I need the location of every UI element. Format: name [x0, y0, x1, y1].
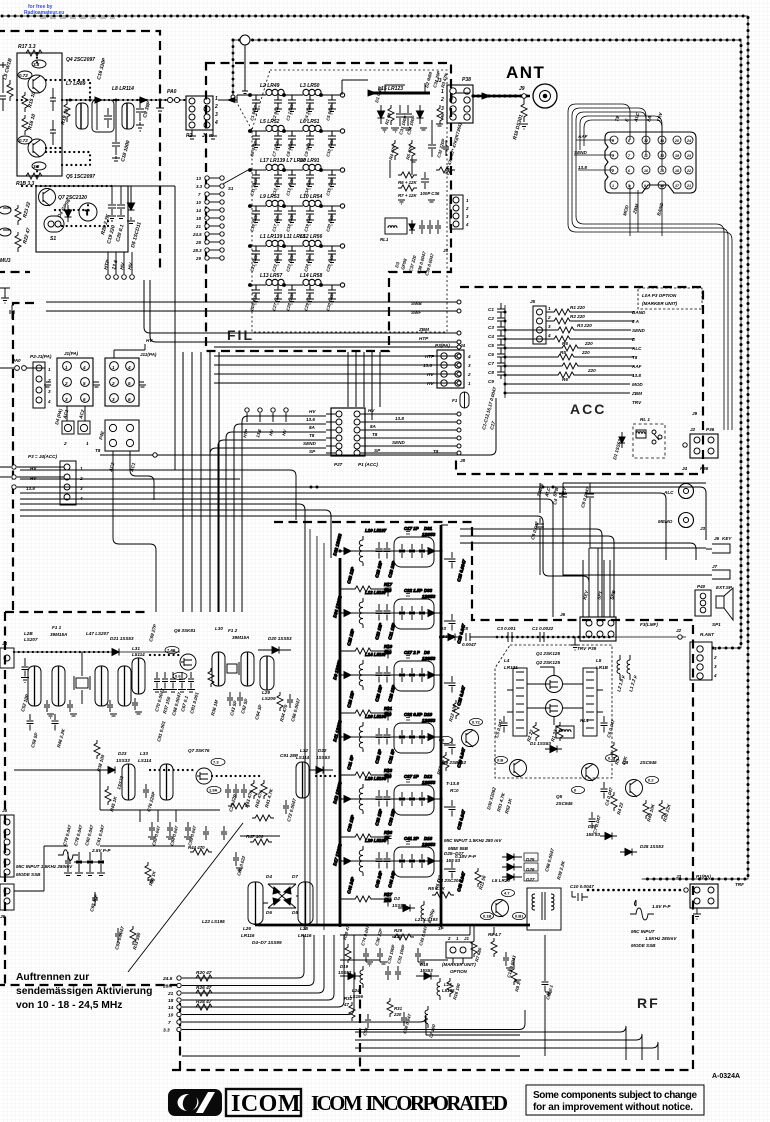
connector P41(PA): [105, 420, 139, 451]
svg-text:R3 220: R3 220: [577, 323, 592, 328]
svg-text:P27: P27: [334, 462, 343, 467]
wire: HTP: [150, 280, 457, 342]
wire HV top of J11: [114, 344, 145, 358]
svg-text:SP: SP: [309, 449, 316, 454]
svg-text:LS114: LS114: [138, 758, 152, 763]
svg-text:L12 L5197: L12 L5197: [365, 590, 387, 595]
beaded wire row2: [150, 770, 260, 776]
svg-text:R8 4.7: R8 4.7: [488, 932, 501, 937]
svg-text:7.4B: 7.4B: [167, 648, 176, 653]
switch S1 band contacts: [205, 176, 224, 260]
svg-text:2: 2: [214, 104, 218, 110]
svg-text:R23: R23: [384, 768, 393, 773]
resistor R33 390: [130, 926, 136, 945]
svg-text:TRV: TRV: [577, 646, 587, 651]
svg-text:A-0324A: A-0324A: [712, 1073, 740, 1080]
dashed box: RF unit main: [170, 522, 693, 1070]
svg-text:MIC INPUT 1.5KHz 280 mV: MIC INPUT 1.5KHz 280 mV: [444, 838, 502, 843]
svg-text:R32: R32: [344, 996, 353, 1001]
svg-text:Auftrennen zur: Auftrennen zur: [16, 972, 89, 983]
svg-text:SP1: SP1: [712, 622, 721, 627]
wires from grid left: [596, 140, 614, 170]
FET Q1 2SK125: [546, 676, 563, 693]
svg-text:J5: J5: [2, 808, 8, 813]
svg-text:D7: D7: [292, 874, 298, 879]
svg-text:von 10 - 18 - 24,5 MHz: von 10 - 18 - 24,5 MHz: [16, 1000, 122, 1011]
coil L7 100: [425, 1006, 428, 1028]
svg-text:13: 13: [660, 154, 664, 158]
wire: SWB: [46, 301, 457, 303]
svg-text:P3 = J4(ACC): P3 = J4(ACC): [28, 454, 57, 459]
svg-text:(MARKER UNIT): (MARKER UNIT): [642, 301, 678, 306]
svg-text:24.5: 24.5: [162, 976, 173, 982]
capacitor C18 1000: [112, 100, 120, 159]
svg-text:L2B: L2B: [24, 631, 33, 636]
svg-text:AAF: AAF: [631, 364, 642, 369]
coil L4 LR121: [513, 668, 527, 736]
wire: band 14: [182, 935, 344, 1007]
jack J7 EXT SP: [706, 570, 730, 579]
svg-text:2: 2: [440, 97, 444, 103]
svg-text:F3(LMF): F3(LMF): [640, 622, 658, 627]
svg-text:D10: D10: [424, 712, 433, 717]
IF stage 4: L16 L5196: [338, 718, 455, 783]
svg-text:11: 11: [644, 154, 648, 158]
svg-text:SEND: SEND: [303, 441, 316, 446]
resistors R6/R7 12K: [398, 172, 417, 191]
svg-text:J8: J8: [460, 458, 466, 463]
connector P3(PA)/J4: [437, 350, 464, 388]
svg-text:PA0: PA0: [167, 89, 177, 95]
svg-text:4: 4: [713, 673, 717, 678]
svg-text:D3: D3: [440, 626, 446, 631]
svg-text:1.9A: 1.9A: [209, 788, 218, 793]
row1 inter caps: [44, 698, 138, 712]
wire: main output line y=100 beaded: [62, 99, 186, 101]
capacitor C8 0.0047: [466, 633, 478, 641]
svg-text:BAND: BAND: [632, 310, 646, 315]
IF stage 3: L14 L5197: [338, 656, 455, 721]
diode D19: [348, 973, 355, 980]
cap C80: [233, 852, 239, 866]
wire: bus y=186: [62, 186, 175, 470]
svg-text:3: 3: [441, 106, 444, 112]
svg-text:C1 0.0022: C1 0.0022: [532, 626, 554, 631]
jack J4: [0, 648, 14, 668]
caps near jacks C8/C9: [559, 487, 594, 504]
svg-text:C3: C3: [488, 325, 494, 330]
svg-text:R2 220: R2 220: [570, 314, 585, 319]
svg-text:P2-J1(PA): P2-J1(PA): [30, 354, 52, 359]
svg-text:6: 6: [83, 397, 86, 402]
svg-text:3: 3: [548, 324, 551, 329]
extra texture modulator mid: [44, 698, 336, 882]
connector shell: [605, 132, 696, 193]
svg-text:T8: T8: [433, 449, 439, 454]
svg-text:sendemässigen Aktivierung: sendemässigen Aktivierung: [16, 986, 152, 997]
connector P39: [580, 617, 616, 641]
svg-text:3: 3: [112, 397, 115, 402]
svg-text:D21 1SS53: D21 1SS53: [110, 636, 134, 641]
svg-text:F1: F1: [452, 398, 458, 403]
svg-text:4: 4: [127, 365, 131, 370]
svg-text:1SS53: 1SS53: [422, 532, 436, 537]
wires from grid bottom: [630, 185, 662, 236]
resistor R15 10 vertical: [22, 92, 28, 112]
connector P3-J4(ACC): [60, 461, 76, 505]
svg-text:P36: P36: [700, 466, 709, 471]
svg-text:1.5KHz 280mV: 1.5KHz 280mV: [645, 936, 677, 941]
svg-text:L26: L26: [243, 926, 251, 931]
cap C36 100P: [421, 172, 429, 189]
svg-text:12: 12: [644, 139, 648, 143]
svg-text:1: 1: [112, 365, 115, 370]
svg-text:28: 28: [195, 240, 201, 245]
resistor R11 56: [475, 868, 481, 887]
cap C32 22P: [377, 948, 383, 962]
svg-text:L21 LS193: L21 LS193: [415, 917, 438, 922]
resistors R4/R5 47K: [392, 140, 415, 160]
svg-text:220: 220: [393, 934, 402, 939]
svg-text:J3: J3: [700, 526, 706, 531]
capacitor row C1-C9: [504, 305, 506, 398]
svg-text:L5 LR52: L5 LR52: [260, 119, 280, 125]
svg-text:1: 1: [468, 381, 471, 386]
svg-text:HV: HV: [30, 476, 37, 481]
connector J5: [0, 815, 14, 877]
capacitor C15 220P: [50, 120, 56, 145]
tank L31: [132, 658, 145, 694]
svg-text:R19: R19: [384, 644, 393, 649]
svg-text:21: 21: [195, 224, 201, 229]
svg-text:13: 13: [196, 176, 201, 181]
relay RL1 coil: [556, 726, 574, 738]
svg-text:1SS53: 1SS53: [392, 903, 406, 908]
svg-text:ACC: ACC: [570, 401, 606, 417]
caps between: [227, 692, 243, 706]
svg-text:3.3: 3.3: [163, 1028, 170, 1034]
ground stubs J1(PA): [44, 382, 100, 387]
svg-text:D18: D18: [420, 962, 429, 967]
svg-text:TRF: TRF: [735, 882, 744, 887]
wire: top row from bus to mixer: [441, 525, 497, 637]
svg-text:C27 2 P: C27 2 P: [404, 650, 420, 655]
pads P4(PA) AC1 AC2: [62, 421, 74, 434]
svg-text:MODE SSB: MODE SSB: [16, 872, 41, 877]
jack MEMO: [679, 513, 694, 528]
svg-text:Q7 2SC2120: Q7 2SC2120: [58, 195, 87, 201]
svg-text:D26: D26: [526, 867, 535, 872]
IF stage 1: L10 L5197: [338, 532, 455, 597]
coil L5 LR1B: [583, 668, 597, 736]
resistor R12 100: [453, 700, 459, 719]
svg-text:T8: T8: [95, 448, 101, 453]
svg-text:J4: J4: [2, 641, 8, 646]
svg-text:47: 47: [343, 1002, 349, 1007]
wire: T8: [100, 398, 496, 455]
diode D21: [112, 649, 119, 656]
svg-text:R17: R17: [384, 582, 393, 587]
svg-text:3: 3: [215, 112, 218, 118]
svg-text:D16: D16: [424, 836, 433, 841]
svg-text:P40: P40: [697, 584, 706, 589]
IF stage 2: L12 L5197: [338, 594, 455, 659]
svg-text:18: 18: [168, 998, 174, 1004]
svg-text:D25~D27: D25~D27: [444, 851, 464, 856]
dotted inner filter outline: [252, 70, 447, 332]
svg-text:8 A: 8 A: [632, 319, 639, 324]
inductor tank L7 LR89: [76, 103, 88, 129]
svg-text:ZBM: ZBM: [631, 391, 642, 396]
svg-text:HV: HV: [309, 409, 316, 414]
wire: band 18: [182, 935, 334, 1000]
svg-text:C8: C8: [488, 370, 494, 375]
svg-text:28.3: 28.3: [192, 248, 202, 253]
jack ALC: [679, 484, 694, 499]
switch S1 dual contact: [44, 216, 64, 232]
svg-text:D1 1SS53: D1 1SS53: [530, 741, 551, 746]
svg-text:D31: D31: [424, 526, 433, 531]
svg-text:ICOM: ICOM: [231, 1091, 301, 1117]
svg-text:4: 4: [440, 114, 444, 120]
svg-text:D22: D22: [318, 748, 327, 753]
connector P1(PA)/J3: [690, 884, 718, 908]
svg-text:39M15A: 39M15A: [50, 632, 67, 637]
resistor R1 68: [388, 105, 394, 125]
svg-text:14: 14: [660, 139, 664, 143]
svg-text:R29: R29: [394, 928, 403, 933]
fuse F1: [460, 392, 469, 408]
svg-text:D4~D7 1SS99: D4~D7 1SS99: [252, 940, 282, 945]
resistor R18 3.3: [22, 173, 46, 179]
svg-text:Q2 2SK125: Q2 2SK125: [536, 660, 560, 665]
svg-text:4: 4: [82, 365, 86, 370]
svg-text:F1 1: F1 1: [52, 625, 62, 630]
jack J6 KEY: [706, 544, 730, 553]
svg-text:RL1: RL1: [380, 237, 389, 242]
resistor R40 150: [228, 803, 250, 809]
svg-text:ANT: ANT: [506, 63, 545, 82]
svg-text:L5 LR20: L5 LR20: [492, 878, 510, 883]
svg-text:2: 2: [79, 476, 83, 481]
resistor R50: [145, 862, 151, 881]
svg-text:0.B1: 0.B1: [515, 914, 524, 919]
pad J2: [678, 635, 682, 639]
dashed box: FIL unit: [206, 63, 451, 351]
cap C55 0.0047: [115, 928, 121, 942]
transistor Q3 2SC945 extra: [462, 730, 479, 747]
note: components subject to change box: [526, 1085, 704, 1115]
resistor R3 10K: [611, 742, 617, 761]
thick wire L15 LR123: [368, 92, 430, 95]
svg-text:1: 1: [86, 441, 89, 446]
dashed box: modulator bottom-left unit: [0, 612, 360, 1070]
ground under C9: [136, 125, 144, 131]
svg-text:8A: 8A: [370, 424, 376, 429]
connector P2/J1: [186, 96, 213, 130]
svg-text:2: 2: [64, 381, 68, 386]
svg-text:1: 1: [48, 367, 51, 372]
svg-text:C3 0.001: C3 0.001: [497, 626, 516, 631]
pad: inner beaded line trimmer circle: [231, 35, 250, 99]
connector J5: [533, 306, 546, 344]
svg-text:0.72: 0.72: [19, 138, 28, 143]
svg-text:4: 4: [465, 222, 469, 227]
connector P40 + speaker SP1: [695, 590, 711, 616]
svg-text:J3: J3: [676, 874, 682, 879]
svg-text:for an improvement without not: for an improvement without notice.: [533, 1102, 693, 1113]
svg-text:L5114: L5114: [132, 652, 145, 657]
svg-text:1: 1: [65, 365, 68, 370]
svg-text:AAF: AAF: [577, 134, 588, 139]
grounds right cluster: [381, 128, 427, 132]
svg-text:0.1B: 0.1B: [483, 914, 492, 919]
resistor R45 1K: [105, 786, 111, 805]
caps C33/C34 100P: [396, 105, 412, 126]
beaded segment row2 right: [316, 775, 336, 777]
svg-text:J6: J6: [560, 612, 566, 617]
cap C12 0.0033: [503, 952, 509, 966]
connector J2/P36: [690, 434, 718, 458]
svg-text:4: 4: [467, 354, 471, 359]
svg-text:1: 1: [441, 89, 444, 95]
resistor R23 22: [15, 205, 21, 225]
resistors R43/R42: [251, 780, 267, 799]
svg-text:T-13.8: T-13.8: [446, 781, 459, 786]
svg-text:T8: T8: [372, 432, 378, 437]
svg-text:FIL: FIL: [227, 327, 254, 343]
tank circuit with cap: [92, 100, 114, 132]
wire: band 28M: [182, 935, 314, 986]
svg-text:2.5V P-P: 2.5V P-P: [91, 848, 111, 853]
svg-text:220: 220: [584, 341, 593, 346]
svg-text:T8: T8: [632, 355, 638, 360]
svg-text:1SS53: 1SS53: [422, 656, 436, 661]
capacitor C3 0.001: [508, 632, 512, 642]
svg-text:C9: C9: [488, 379, 494, 384]
grounds marker: [366, 962, 552, 996]
svg-text:1SS53: 1SS53: [316, 755, 330, 760]
svg-text:C37 1P: C37 1P: [404, 774, 419, 779]
svg-text:LR121: LR121: [504, 665, 518, 670]
thick bus left: [339, 558, 342, 925]
wire: long verticals through strip: [310, 529, 324, 930]
svg-text:ALC: ALC: [631, 346, 642, 351]
pin numbers: [611, 139, 691, 188]
svg-text:6: 6: [128, 397, 131, 402]
pin circles grid: [610, 136, 693, 189]
caps C56/C60: [365, 1012, 407, 1028]
svg-text:155.53: 155.53: [440, 634, 454, 639]
grounds: [148, 868, 243, 882]
cap C66: [287, 694, 293, 708]
svg-text:L5: L5: [596, 658, 602, 663]
transistor Q9 2SB562: [510, 760, 527, 777]
svg-text:C32 0.5P: C32 0.5P: [404, 712, 422, 717]
svg-text:13.8: 13.8: [395, 416, 404, 421]
svg-text:ZBM: ZBM: [418, 327, 429, 332]
capacitor C10 0.0047: [572, 891, 588, 901]
svg-text:SEND: SEND: [392, 440, 405, 445]
svg-text:2: 2: [467, 372, 471, 377]
svg-text:4: 4: [47, 399, 51, 404]
transistor Q4 2SC2083: [492, 900, 509, 917]
motor M: [79, 203, 97, 221]
HTP/13.6/HV/HV drop pads mid: [245, 408, 288, 422]
wires mixer: [527, 667, 583, 725]
svg-text:L16 L5196: L16 L5196: [365, 714, 387, 719]
svg-text:T8: T8: [309, 433, 315, 438]
svg-text:2: 2: [63, 441, 67, 446]
transistor Q5 2SC2097: [28, 139, 46, 157]
svg-text:1: 1: [215, 96, 218, 102]
ground stubs under connector: [156, 100, 217, 139]
relay RL1: [385, 218, 407, 234]
svg-text:RL 1: RL 1: [640, 417, 650, 422]
caps row1 left: [27, 714, 59, 731]
svg-text:4.7: 4.7: [504, 891, 510, 896]
svg-text:8A: 8A: [309, 425, 315, 430]
svg-text:LR116: LR116: [298, 933, 312, 938]
resistor R19 10 vertical: [64, 100, 70, 122]
svg-text:3: 3: [468, 363, 471, 368]
svg-text:9: 9: [644, 184, 646, 188]
pads PA0: [168, 98, 173, 103]
dashed box: PA top-left unit: [0, 31, 160, 272]
wire: row outputs to right: [342, 80, 368, 95]
svg-text:SP: SP: [374, 448, 381, 453]
diode D20: [272, 647, 279, 654]
svg-text:L30: L30: [215, 626, 223, 631]
resistor R9 1: [511, 966, 517, 985]
svg-text:C22 1.5P: C22 1.5P: [404, 588, 422, 593]
svg-text:L0A P3 OPTION: L0A P3 OPTION: [642, 293, 677, 298]
svg-text:S1: S1: [228, 186, 234, 191]
diode D2: [417, 105, 424, 124]
capacitor C14 220P: [50, 88, 56, 111]
tank L30 + crystal F12 + tank: [212, 652, 225, 686]
svg-text:R=0: R=0: [450, 788, 459, 793]
diodes row2: [108, 767, 115, 774]
transistor Q8 2SC945: [626, 780, 643, 797]
coil L23: [437, 978, 440, 1000]
svg-text:L12 LR56: L12 LR56: [300, 234, 322, 240]
caps column C79/C78/C60/C61: [64, 852, 72, 876]
svg-text:5: 5: [83, 381, 86, 386]
connector F3(LMF): [690, 642, 712, 680]
wire: beaded page border top/right outer: [2, 16, 748, 879]
svg-text:C2: C2: [488, 316, 494, 321]
svg-text:L24: L24: [352, 988, 360, 993]
svg-text:L3 LR50: L3 LR50: [300, 83, 320, 89]
svg-text:R27: R27: [384, 892, 393, 897]
grounds under C19/C20/D5: [108, 216, 135, 224]
capacitor C20 0.1: [117, 190, 125, 215]
svg-text:2: 2: [547, 315, 551, 320]
svg-text:C4: C4: [488, 334, 494, 339]
diode D18: [424, 973, 431, 980]
connector J1(PA): [57, 358, 93, 406]
extra parts K7365 column: [385, 83, 455, 204]
svg-text:2SC945: 2SC945: [639, 760, 657, 765]
wire: band 10: [182, 935, 354, 1015]
svg-text:P36: P36: [706, 427, 715, 432]
svg-text:R20 47: R20 47: [196, 970, 212, 976]
svg-text:J2: J2: [676, 628, 682, 633]
wire: row1 beaded input: [14, 651, 110, 653]
svg-text:J6: J6: [0, 914, 6, 919]
resistor R17 3.3: [22, 50, 46, 56]
